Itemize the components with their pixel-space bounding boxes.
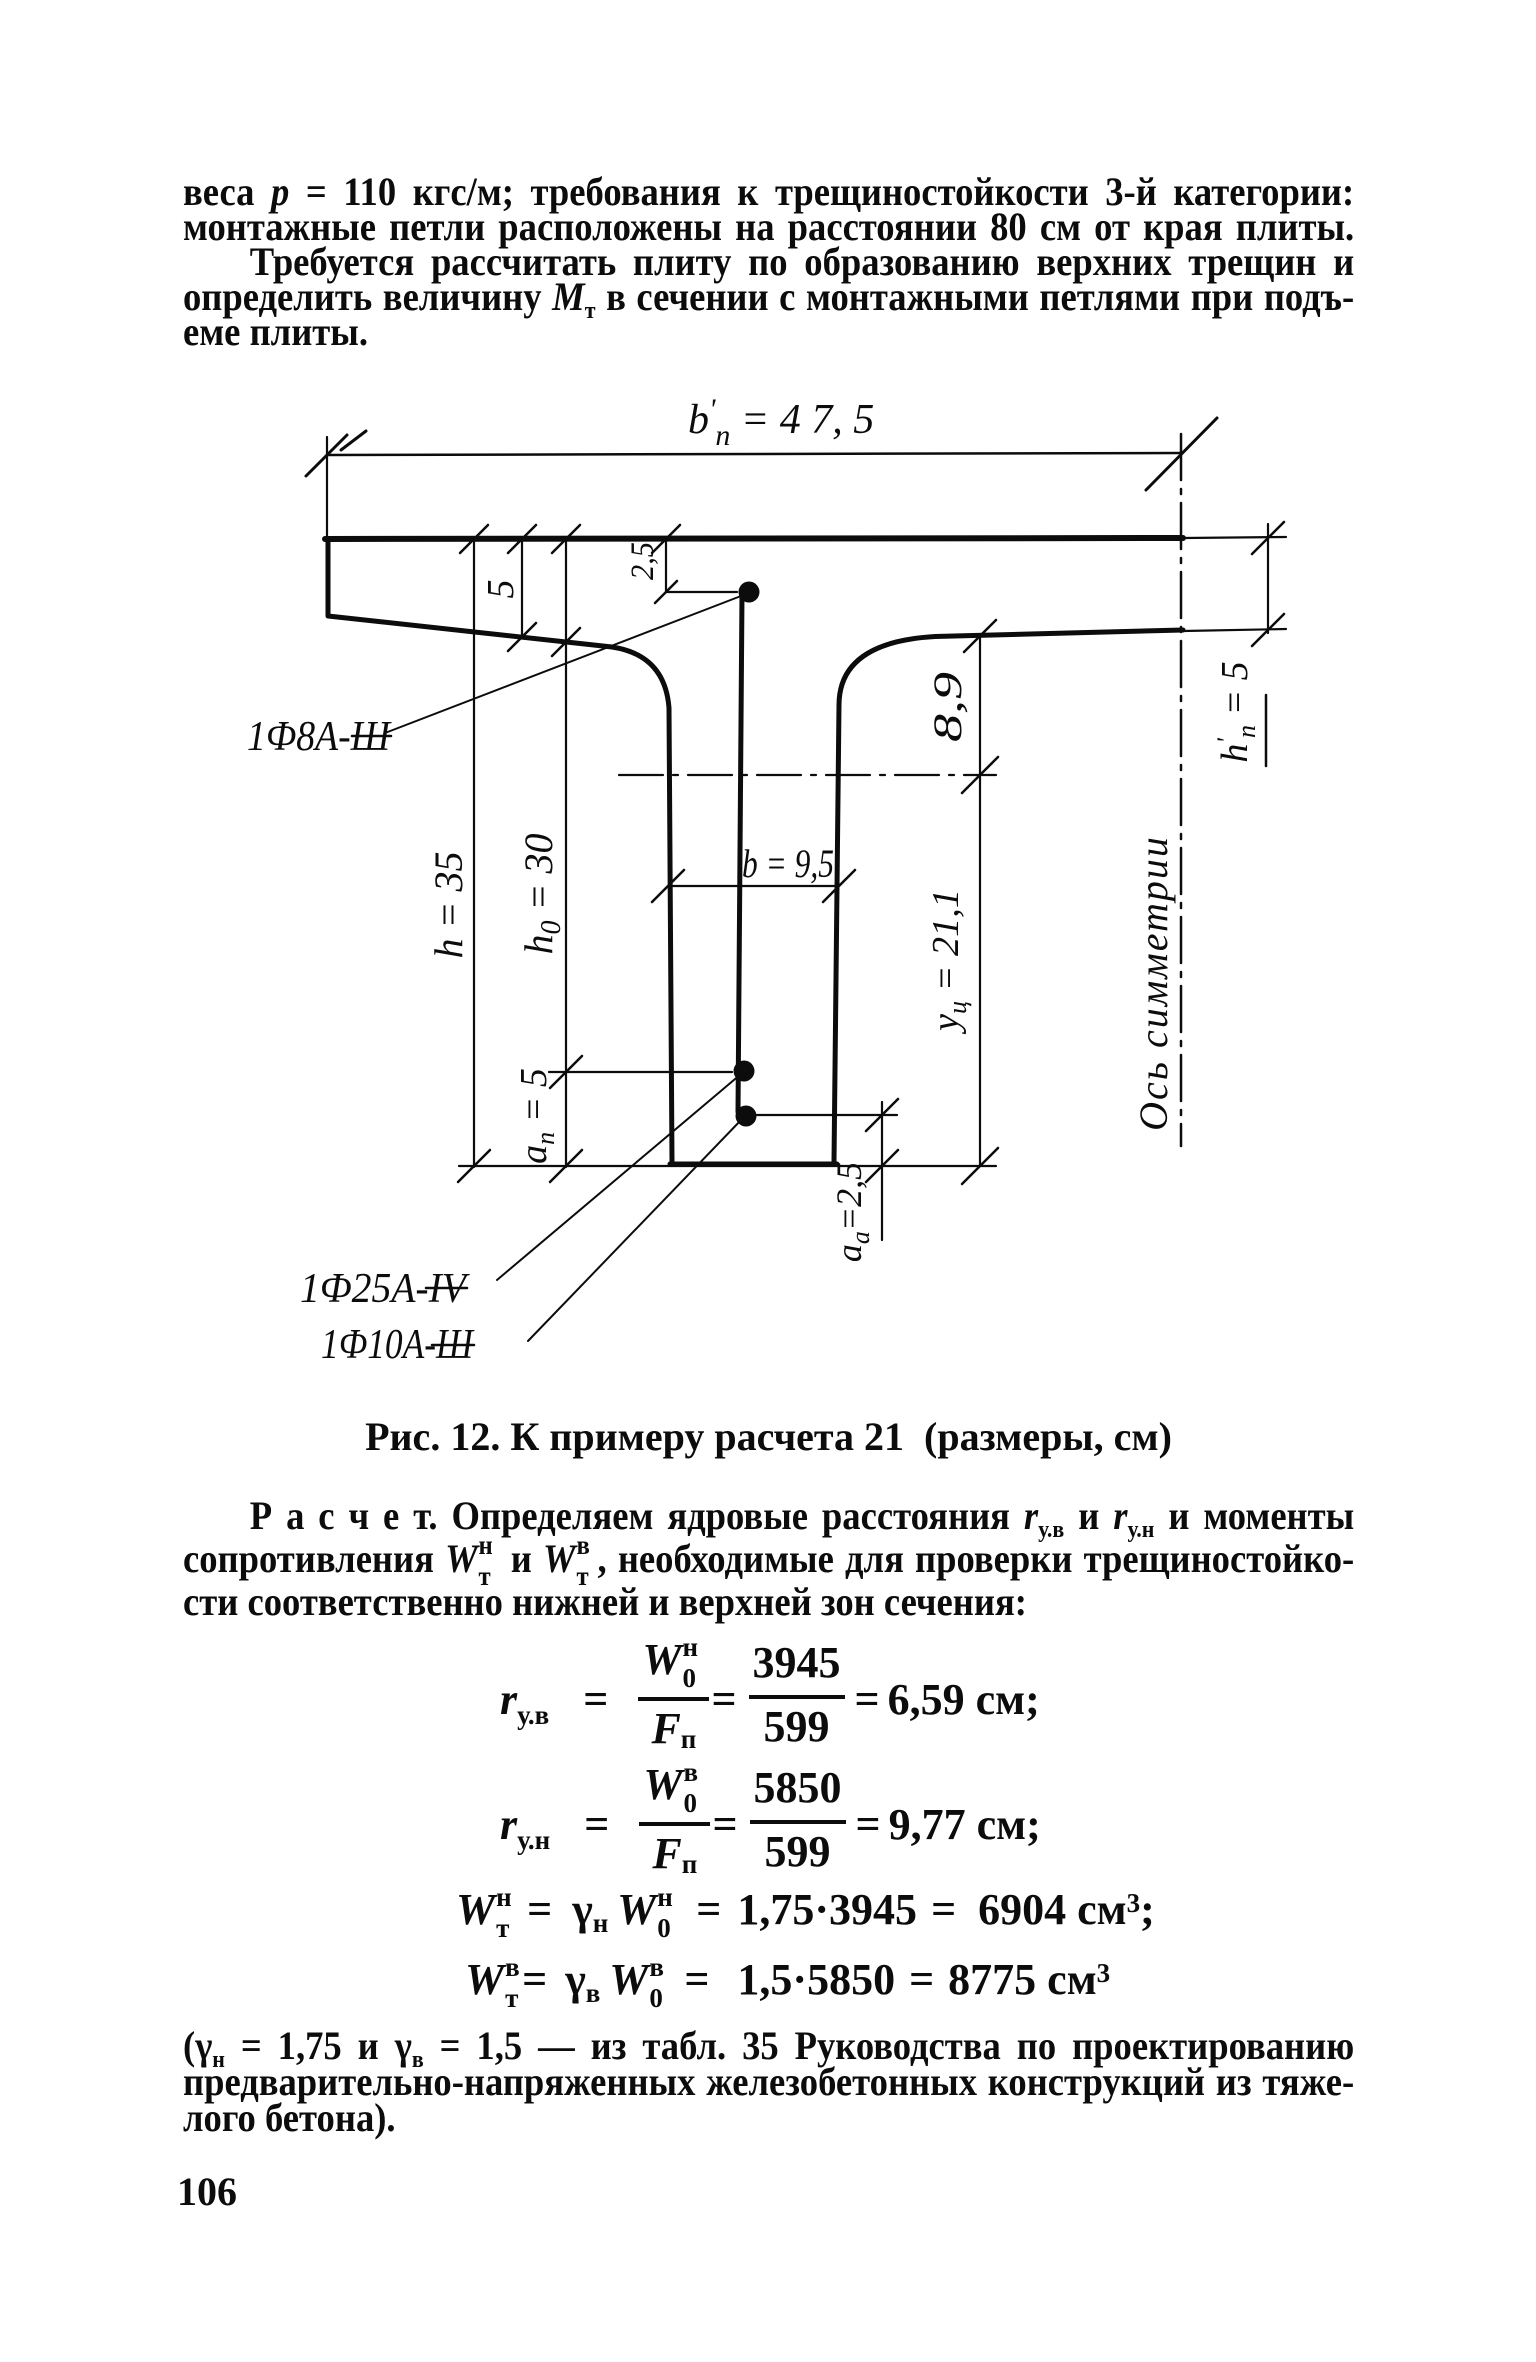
ticks on taper line <box>508 623 580 656</box>
page number <box>177 2174 237 2209</box>
left extension line <box>326 437 328 541</box>
dimension line h0=30 <box>565 539 567 1167</box>
svg-text:b'п = 4 7, 5: b'п = 4 7, 5 <box>688 393 874 452</box>
dimension line 5 right edge <box>521 539 523 638</box>
strike on III of 1Ф8А-III <box>352 735 391 738</box>
leader line 1Ф8А-III <box>385 596 741 733</box>
dimension line a_а=2,5 <box>881 1102 883 1240</box>
svg-text:уц = 21,1: уц = 21,1 <box>925 889 972 1035</box>
tick at 8,9 top end <box>964 620 996 652</box>
svg-text:h'п = 5: h'п = 5 <box>1212 661 1261 762</box>
extension line h'п bottom <box>1183 629 1286 631</box>
svg-text:2,5: 2,5 <box>625 542 661 580</box>
formula W_t^v <box>465 1955 1110 2005</box>
ticks on bottom line <box>458 1148 998 1184</box>
svg-text:h0 = 30: h0 = 30 <box>516 834 567 955</box>
underline of h'п label <box>1265 695 1268 766</box>
svg-text:8,9: 8,9 <box>925 672 970 742</box>
bottom extension line <box>459 1165 996 1167</box>
axis of symmetry dash-dot <box>1180 434 1183 1146</box>
formula r_y.v <box>500 1650 1040 1749</box>
leader line 1Ф10А-III <box>528 1118 743 1341</box>
tick at a_п upper end <box>550 1056 582 1088</box>
tick left of b'п dimension <box>306 435 347 476</box>
svg-text:aп = 5: aп = 5 <box>513 1068 560 1164</box>
tick stray stroke top-left <box>341 431 366 450</box>
extension line h'п top <box>1185 537 1286 538</box>
ticks on b=9,5 dimension <box>652 870 855 902</box>
flange top edge <box>325 538 1183 539</box>
svg-text:h = 35: h = 35 <box>426 852 471 959</box>
top paragraph <box>183 174 1354 349</box>
extension line a_а <box>757 1114 897 1116</box>
extension line 2,5 to rebar <box>666 591 737 593</box>
tick at centroid crossing <box>962 757 998 793</box>
svg-text:b = 9,5: b = 9,5 <box>742 841 834 886</box>
centroid axis dash-dot <box>619 774 996 776</box>
rib right face, right fillet, flange underside right <box>834 630 1183 1162</box>
rib bottom edge <box>670 1162 837 1167</box>
flange underside taper and rib left face <box>328 616 672 1162</box>
formula W_t^n <box>456 1885 1155 1935</box>
dimension line 8,9 / y_c <box>979 634 981 1166</box>
leader line 1Ф25А-IV <box>497 1074 741 1280</box>
svg-text:aа=2,5: aа=2,5 <box>829 1162 875 1262</box>
ticks on flange top <box>460 525 680 553</box>
dimension line b=9,5 <box>668 885 839 887</box>
flange left edge <box>326 540 331 615</box>
tick at a_а upper end <box>866 1099 898 1131</box>
strike on III of 1Ф10А-III <box>432 1344 474 1347</box>
dimension line h'п=5 <box>1267 524 1269 633</box>
tick right of b'п dimension <box>1146 418 1217 490</box>
dimension line h=35 <box>473 539 475 1167</box>
formula r_y.n <box>500 1775 1041 1874</box>
dimension line b'п=47,5 <box>327 453 1181 455</box>
svg-text:Ось симметрии: Ось симметрии <box>1131 835 1176 1131</box>
strike on IV of 1Ф25А-IV <box>426 1287 467 1290</box>
rebar axis line <box>738 594 742 1112</box>
extension line a_п <box>549 1071 732 1073</box>
figure caption <box>183 1419 1354 1454</box>
Расчет paragraph <box>183 1494 1354 1623</box>
dimension line 2,5 <box>665 539 667 592</box>
rebar dot bottom lower <box>736 1106 757 1127</box>
ticks on h'п dimension <box>1252 522 1284 646</box>
rebar dot bottom upper <box>734 1061 755 1082</box>
svg-text:5: 5 <box>480 580 522 599</box>
tick at 2,5 lower end <box>655 581 677 603</box>
rebar dot top <box>739 582 760 603</box>
bottom paragraph <box>183 2028 1354 2136</box>
